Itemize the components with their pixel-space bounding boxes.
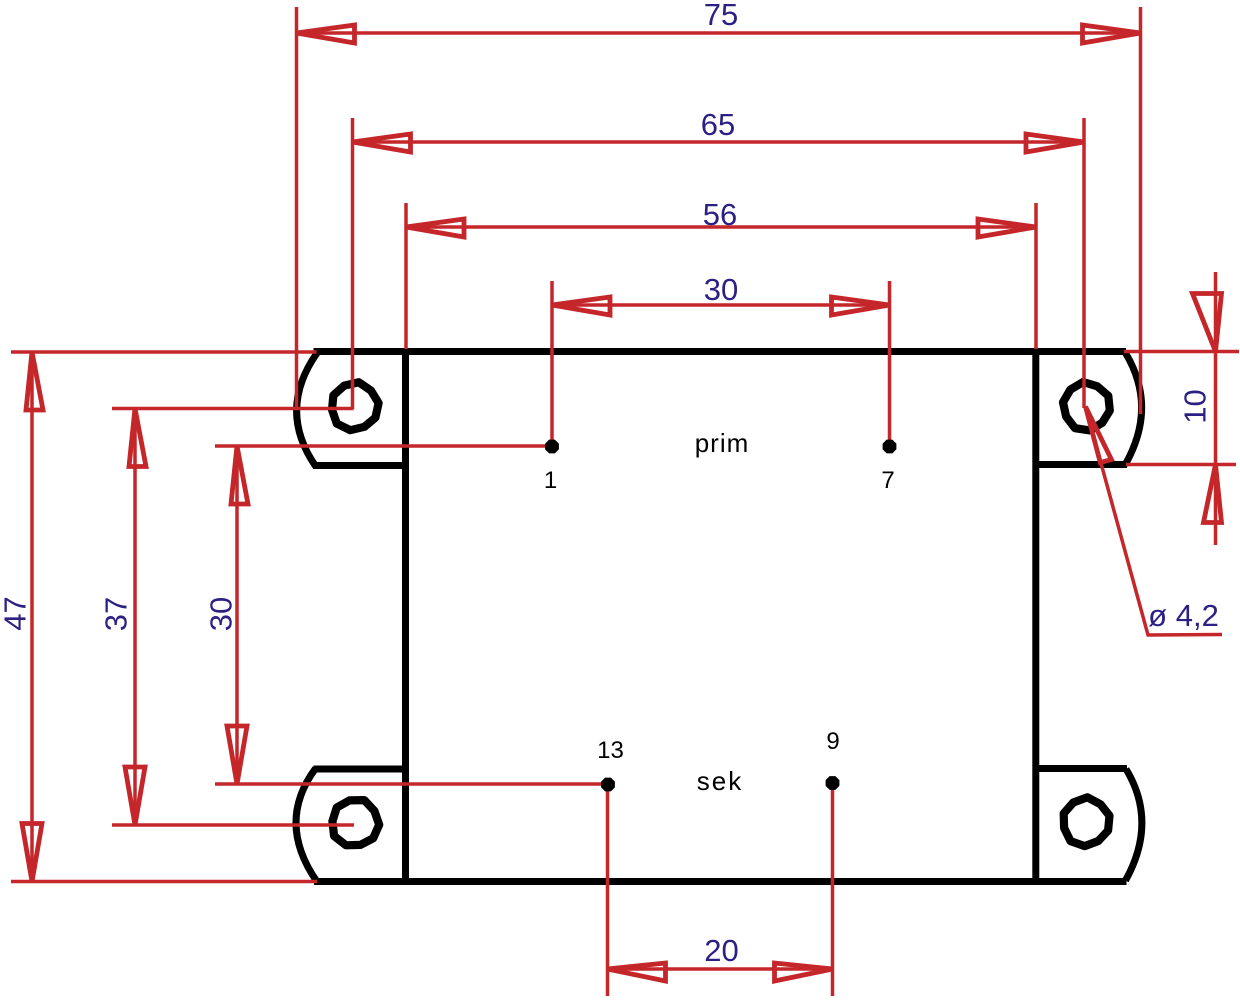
- extension line: 75 right: [1139, 7, 1143, 414]
- body outline: right edge: [1032, 349, 1039, 884]
- svg-text:10: 10: [1178, 389, 1213, 423]
- dimension line 56: [406, 225, 1036, 229]
- body outline: left edge: [402, 349, 409, 884]
- svg-text:65: 65: [701, 107, 735, 142]
- extension line: 30 right (pin 7): [888, 281, 892, 446]
- pin 13: [602, 779, 614, 791]
- extension line: 75 left: [295, 7, 299, 410]
- extension line: 65 left: [351, 118, 355, 409]
- dimension line 65: [353, 140, 1085, 144]
- extension line: 30 left (pin 1): [550, 281, 554, 446]
- extension line: 47 top: [11, 350, 317, 354]
- extension line: 37 top: [112, 407, 354, 411]
- tab BR: top edge: [1036, 765, 1127, 772]
- svg-text:13: 13: [597, 737, 624, 764]
- body outline: bottom edge: [314, 878, 1127, 885]
- svg-text:9: 9: [826, 728, 839, 755]
- svg-text:30: 30: [204, 597, 239, 631]
- extension line: 47 bottom: [11, 880, 317, 884]
- dimension line 30 vertical: [235, 446, 239, 784]
- svg-text:7: 7: [881, 467, 894, 494]
- tab TL: bottom edge: [313, 462, 406, 469]
- extension line: 56 right: [1034, 203, 1038, 349]
- dimension line 10 upper segment: [1214, 272, 1218, 545]
- svg-text:1: 1: [544, 467, 557, 494]
- svg-text:47: 47: [0, 596, 33, 630]
- svg-text:ø 4,2: ø 4,2: [1148, 598, 1219, 633]
- dimension line 30 top: [552, 303, 890, 307]
- mounting hole TL: [332, 382, 379, 430]
- extension line: 10 top: [1124, 350, 1239, 354]
- dimension line 75: [297, 31, 1141, 35]
- pin 7: [884, 441, 896, 453]
- svg-text:37: 37: [99, 597, 134, 631]
- pin 1: [546, 441, 558, 453]
- svg-text:56: 56: [703, 197, 737, 232]
- mounting hole BL: [332, 800, 379, 845]
- tab TR: bottom edge: [1036, 461, 1127, 468]
- extension line: 56 left: [404, 203, 408, 349]
- pin 9: [827, 777, 839, 789]
- tab TL: arc: [297, 353, 317, 466]
- leader line for hole diameter: [1086, 407, 1223, 636]
- extension line: 65 right: [1082, 118, 1086, 408]
- tab BR: arc: [1126, 769, 1142, 881]
- extension line: 30v bottom (pin 13 row): [215, 782, 608, 786]
- svg-text:75: 75: [704, 0, 738, 32]
- dimension line 10 lower segment: [1204, 465, 1222, 523]
- dimension line 37: [133, 409, 137, 826]
- dimension line 20: [608, 967, 833, 971]
- mounting hole BR: [1064, 797, 1110, 846]
- svg-text:30: 30: [704, 272, 738, 307]
- svg-text:prim: prim: [695, 428, 750, 458]
- dimension line 47: [30, 352, 34, 882]
- extension line: 20 right (pin 9): [831, 783, 835, 996]
- tab BL: arc: [296, 769, 317, 882]
- extension line: 20 left (pin 13): [606, 784, 610, 996]
- extension line: 30v top (pin 1 row): [215, 444, 552, 448]
- svg-text:20: 20: [704, 933, 738, 968]
- mounting hole TR: [1063, 382, 1110, 430]
- extension line: 10 bottom: [1126, 463, 1236, 467]
- extension line: 37 bottom: [112, 823, 354, 827]
- body outline: top edge: [314, 348, 1127, 355]
- tab BL: top edge: [314, 766, 407, 773]
- tab TR: arc: [1125, 353, 1142, 465]
- svg-text:sek: sek: [697, 766, 743, 796]
